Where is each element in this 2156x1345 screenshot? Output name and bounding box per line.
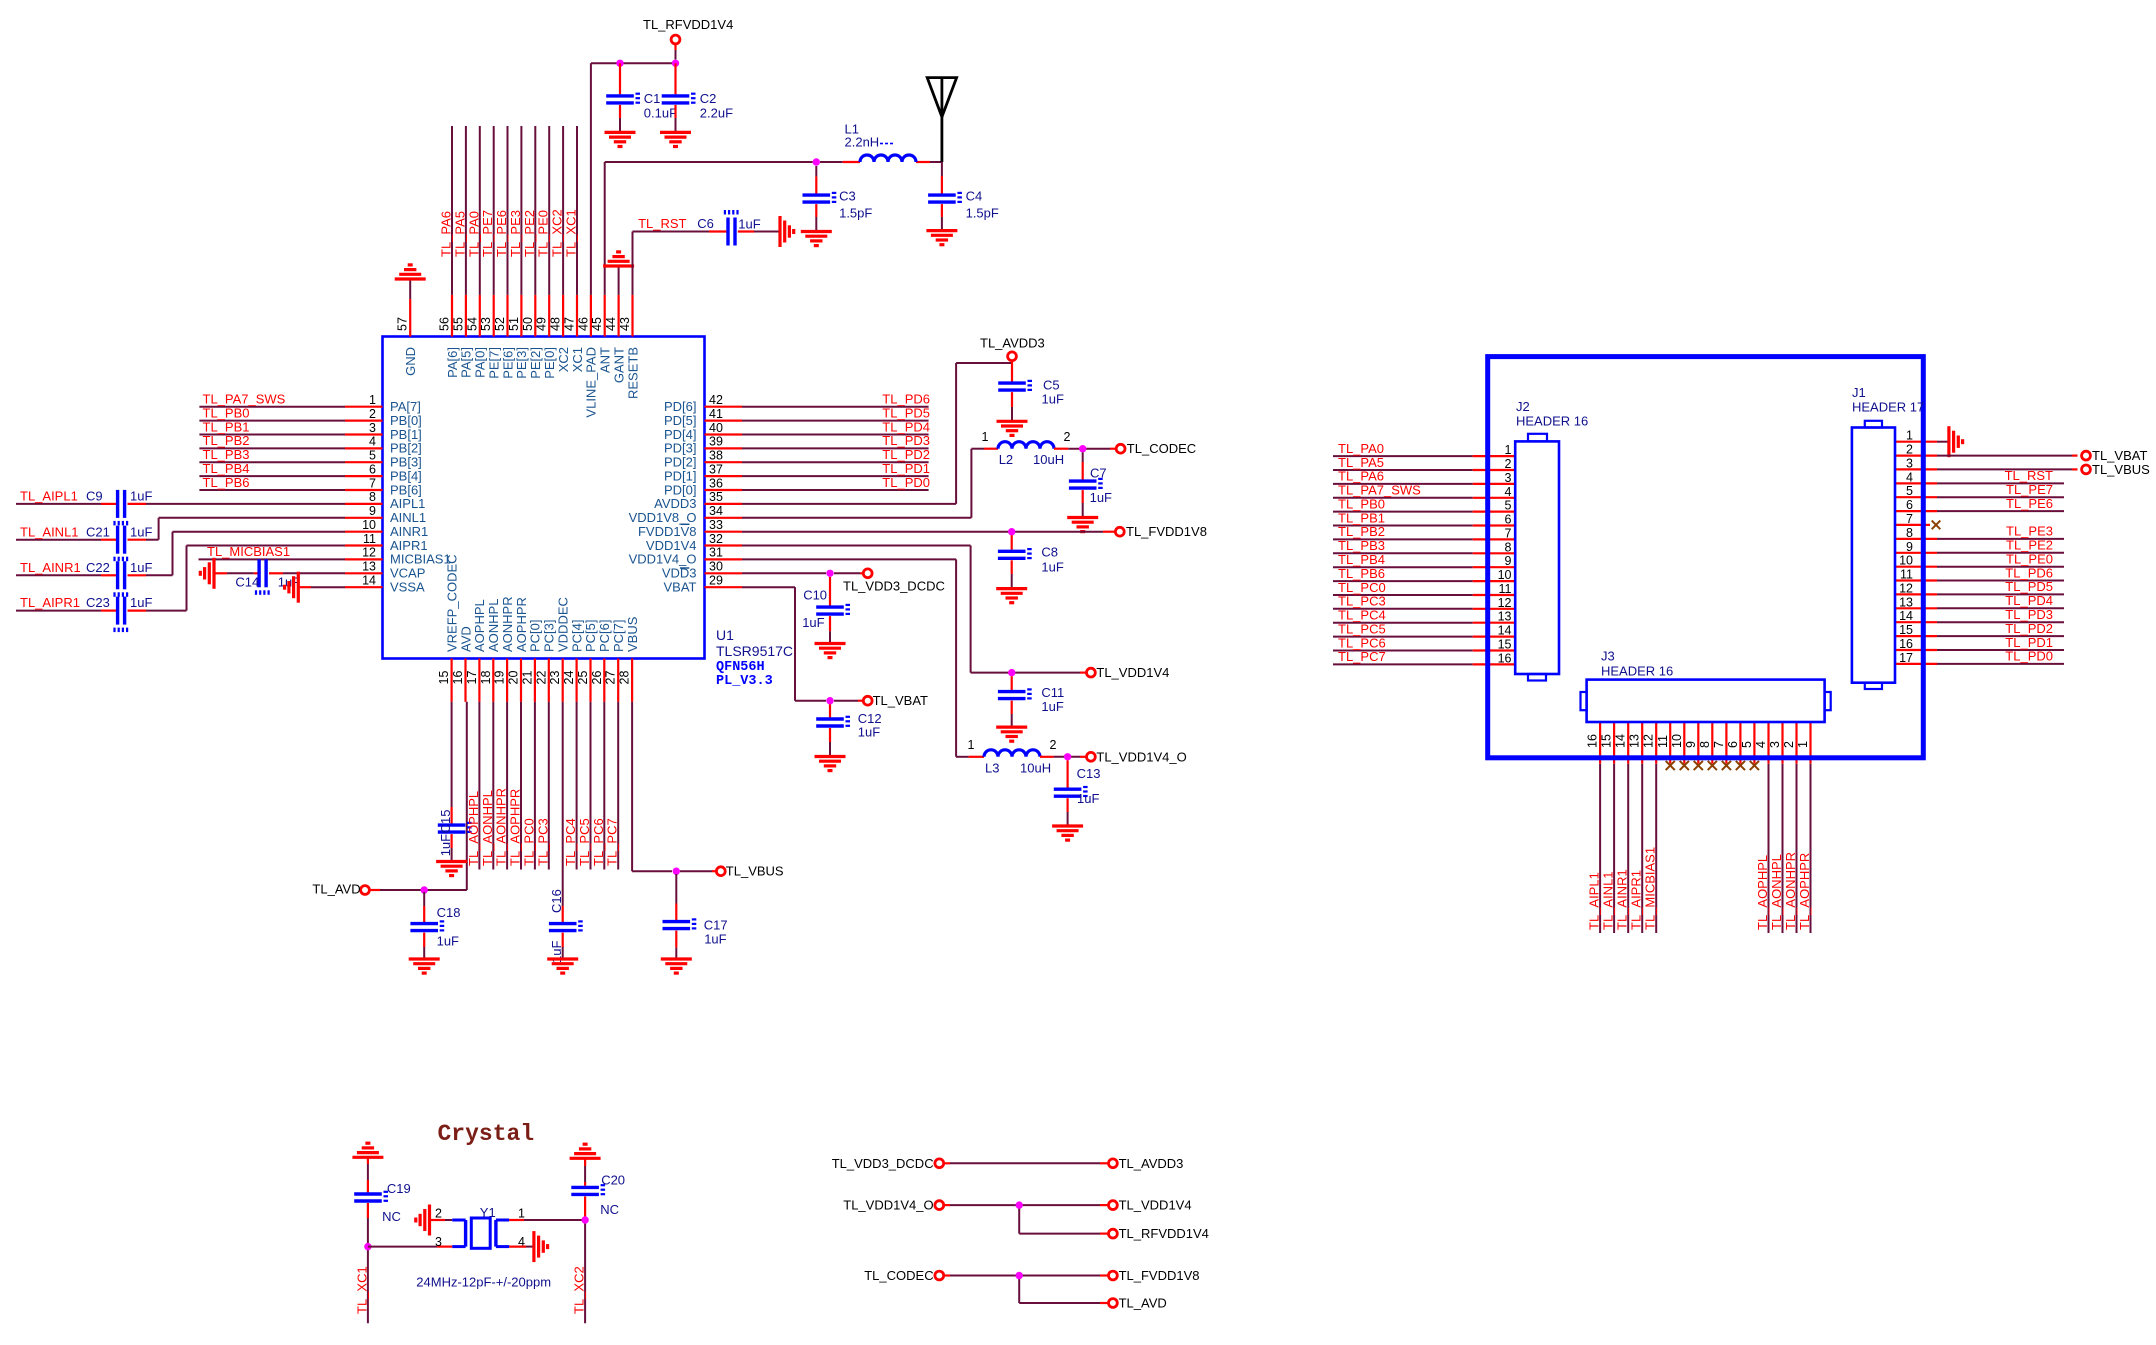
U1 top pin stubs 43-57: [410, 295, 632, 337]
U1 bottom pin names: [444, 554, 640, 652]
svg-text:TL_PA5: TL_PA5: [1338, 455, 1384, 470]
wire TL_PB3 to J2 pin 8: [1333, 538, 1515, 553]
no-connect J3 pins 5-11: [1666, 722, 1759, 770]
wire TL_PB0 to U1 pin 2: [199, 405, 345, 420]
wire TL_PE0 from J1 pin 10: [1895, 552, 2064, 567]
ground at C13: [1052, 826, 1083, 840]
wire TL_PC3 from U1 pin 22: [535, 702, 550, 870]
svg-text:37: 37: [709, 462, 723, 476]
wire TL_PD5 from J1 pin 12: [1895, 579, 2064, 594]
svg-text:TL_PB1: TL_PB1: [203, 419, 250, 434]
svg-text:J1: J1: [1852, 385, 1866, 400]
capacitor C12 1uF: [816, 704, 881, 756]
wire TL_PC6 to J2 pin 15: [1333, 635, 1515, 650]
wire TL_PC5 to J2 pin 14: [1333, 621, 1515, 636]
svg-text:39: 39: [709, 435, 723, 449]
svg-text:TL_PB4: TL_PB4: [203, 461, 250, 476]
wire TL_AOPHPL from U1 pin 17: [466, 702, 481, 870]
wire TL_AOPHPR from J3 pin 1: [1797, 722, 1812, 933]
svg-text:3: 3: [435, 1235, 442, 1249]
wire TL_PD0 from J1 pin 17: [1895, 649, 2064, 664]
svg-text:38: 38: [709, 449, 723, 463]
svg-text:QFN56H: QFN56H: [716, 660, 765, 675]
svg-text:1uF: 1uF: [1041, 699, 1063, 714]
svg-text:3: 3: [1505, 471, 1512, 485]
junction at C12: [826, 697, 833, 704]
wire TL_PB4 to U1 pin 6: [199, 461, 345, 476]
svg-text:13: 13: [1628, 734, 1642, 748]
svg-text:PD[0]: PD[0]: [664, 482, 697, 497]
svg-text:PB[3]: PB[3]: [390, 455, 422, 470]
power port TL_VBUS: [716, 864, 784, 879]
svg-text:TL_AONHPR: TL_AONHPR: [1783, 852, 1798, 930]
svg-text:C20: C20: [601, 1173, 625, 1188]
svg-text:0.1uF: 0.1uF: [644, 105, 677, 120]
IC U1 TLSR9517C body: [383, 337, 705, 659]
U1 left pin numbers 1-14: [362, 393, 376, 588]
svg-text:4: 4: [1754, 741, 1768, 748]
svg-text:TL_AVDD3: TL_AVDD3: [1119, 1156, 1184, 1171]
svg-text:54: 54: [465, 317, 479, 331]
svg-text:TL_VDD3_DCDC: TL_VDD3_DCDC: [843, 579, 945, 594]
svg-text:49: 49: [535, 317, 549, 331]
svg-text:8: 8: [1698, 741, 1712, 748]
svg-text:2.2nH: 2.2nH: [845, 134, 880, 149]
svg-text:14: 14: [1498, 624, 1512, 638]
wire TL_AOPHPR from U1 pin 20: [508, 702, 523, 870]
svg-text:TL_PA7_SWS: TL_PA7_SWS: [203, 392, 286, 407]
svg-text:PC[4]: PC[4]: [569, 619, 584, 652]
svg-text:1: 1: [1796, 741, 1810, 748]
port TL_VBUS right: [2082, 462, 2151, 477]
svg-text:TL_AOPHPR: TL_AOPHPR: [1797, 853, 1812, 930]
svg-text:TL_PE2: TL_PE2: [2006, 538, 2053, 553]
svg-text:TL_AIPL1: TL_AIPL1: [1587, 872, 1602, 930]
svg-text:4: 4: [1505, 485, 1512, 499]
svg-text:TL_PD4: TL_PD4: [882, 419, 930, 434]
ground at C14 left: [200, 558, 214, 589]
svg-text:PE[7]: PE[7]: [487, 347, 502, 379]
svg-text:AONHPR: AONHPR: [500, 596, 515, 652]
port TL_VDD1V4_O: [843, 1198, 943, 1213]
capacitor C22 with net TL_AINR1 to U1 pin 10: [16, 532, 345, 597]
svg-text:12: 12: [1498, 596, 1512, 610]
svg-text:PD[5]: PD[5]: [664, 413, 697, 428]
inductor L2 10uH: [982, 430, 1071, 467]
svg-text:TL_AONHPR: TL_AONHPR: [494, 788, 509, 866]
wire TL_PC4 from U1 pin 24: [563, 702, 578, 870]
svg-text:TL_FVDD1V8: TL_FVDD1V8: [1119, 1268, 1200, 1283]
svg-text:4: 4: [369, 435, 376, 449]
svg-text:TL_AINR1: TL_AINR1: [20, 560, 81, 575]
svg-text:50: 50: [521, 317, 535, 331]
svg-text:TL_PC4: TL_PC4: [563, 818, 578, 866]
svg-text:PA[0]: PA[0]: [473, 347, 488, 378]
svg-text:PA[5]: PA[5]: [459, 347, 474, 378]
svg-text:3: 3: [1906, 457, 1913, 471]
wire TL_PC7 from U1 pin 27: [605, 702, 620, 870]
svg-text:J2: J2: [1516, 399, 1530, 414]
svg-text:TLSR9517C: TLSR9517C: [716, 643, 793, 659]
ground at C6: [780, 216, 794, 247]
svg-text:TL_VBAT: TL_VBAT: [2092, 448, 2147, 463]
wire TL_PD5 from U1 pin 41: [742, 405, 930, 420]
svg-text:PB[0]: PB[0]: [390, 413, 422, 428]
ground at C12: [815, 757, 846, 771]
capacitor C1 0.1uF: [606, 63, 677, 132]
svg-text:PD[6]: PD[6]: [664, 399, 697, 414]
U1 right pin names: [629, 399, 697, 595]
wire TL_AONHPL from U1 pin 18: [480, 702, 495, 870]
svg-text:9: 9: [369, 504, 376, 518]
wire TL_PE3 from J1 pin 8: [1895, 524, 2064, 539]
wire TL_PA5 to J2 pin 2: [1333, 455, 1515, 470]
svg-text:24MHz-12pF-+/-20ppm: 24MHz-12pF-+/-20ppm: [416, 1275, 551, 1290]
svg-text:52: 52: [493, 317, 507, 331]
svg-text:TL_RFVDD1V4: TL_RFVDD1V4: [1119, 1226, 1209, 1241]
svg-text:14: 14: [1614, 734, 1628, 748]
wire TL_MICBIAS1 to U1 pin 12: [199, 544, 346, 559]
svg-text:22: 22: [534, 671, 548, 685]
svg-text:PD[3]: PD[3]: [664, 441, 697, 456]
crystal Y1: [435, 1205, 525, 1249]
svg-text:10: 10: [1670, 734, 1684, 748]
svg-text:TL_AOPHPR: TL_AOPHPR: [508, 789, 523, 866]
wire TL_PB2 to U1 pin 4: [199, 433, 345, 448]
ground at C2: [660, 132, 691, 146]
svg-text:TL_VDD1V4: TL_VDD1V4: [1119, 1198, 1192, 1213]
svg-text:PC[7]: PC[7]: [611, 619, 626, 652]
ground at crystal pin 4: [509, 1231, 547, 1262]
svg-text:13: 13: [362, 560, 376, 574]
capacitor C18 1uF: [410, 892, 460, 959]
svg-text:1uF: 1uF: [1041, 560, 1063, 575]
svg-text:TL_PD2: TL_PD2: [2005, 621, 2053, 636]
svg-text:TL_PD3: TL_PD3: [2005, 607, 2053, 622]
wire TL_MICBIAS1 from J3 pin 12: [1643, 722, 1658, 933]
svg-text:2: 2: [369, 407, 376, 421]
junction at C10: [826, 570, 833, 577]
ground at crystal pin 2: [416, 1205, 453, 1236]
svg-text:TL_XC2: TL_XC2: [572, 1266, 587, 1314]
svg-text:5: 5: [1740, 741, 1754, 748]
svg-text:C8: C8: [1041, 545, 1058, 560]
svg-text:PA[7]: PA[7]: [390, 399, 421, 414]
svg-text:2: 2: [435, 1207, 442, 1221]
svg-text:VBAT: VBAT: [664, 580, 697, 595]
svg-text:1: 1: [1906, 429, 1913, 443]
wire TL_PE6 to U1 pin 52: [494, 126, 509, 295]
svg-text:8: 8: [1505, 540, 1512, 554]
svg-text:1uF: 1uF: [738, 217, 760, 232]
wire TL_AONHPR from U1 pin 19: [494, 702, 509, 870]
wire TL_AOPHPL from J3 pin 4: [1755, 722, 1770, 933]
connector J2 HEADER 16: [1515, 399, 1588, 681]
svg-text:TL_PE6: TL_PE6: [494, 210, 509, 257]
wire VDD1V4_O U1 pin 31 to L3: [742, 559, 984, 756]
svg-text:TL_PA6: TL_PA6: [1338, 469, 1384, 484]
svg-text:TL_PE3: TL_PE3: [508, 210, 523, 257]
svg-text:26: 26: [590, 671, 604, 685]
svg-text:TL_PC5: TL_PC5: [577, 818, 592, 866]
svg-text:AOPHPR: AOPHPR: [514, 597, 529, 652]
svg-text:TL_PB2: TL_PB2: [203, 433, 250, 448]
wire TL_PA0 to U1 pin 54: [466, 126, 481, 295]
wire TL_RST from J1 pin 4: [1895, 468, 2064, 483]
svg-text:7: 7: [369, 476, 376, 490]
capacitor C19 NC: [354, 1181, 411, 1224]
capacitor C13 1uF: [1054, 760, 1101, 826]
svg-text:TL_AVDD3: TL_AVDD3: [980, 336, 1045, 351]
wire TL_PE2 to U1 pin 50: [522, 126, 537, 295]
svg-text:TL_RST: TL_RST: [638, 216, 686, 231]
svg-text:1.5pF: 1.5pF: [966, 206, 999, 221]
ground at C5: [997, 421, 1028, 435]
svg-text:10uH: 10uH: [1033, 452, 1064, 467]
svg-text:TL_PE7: TL_PE7: [480, 210, 495, 257]
svg-text:9: 9: [1684, 741, 1698, 748]
svg-text:TL_PC0: TL_PC0: [1338, 580, 1386, 595]
port TL_AVDD3 right: [1109, 1156, 1184, 1171]
svg-text:AIPR1: AIPR1: [390, 538, 428, 553]
svg-text:TL_VDD1V4: TL_VDD1V4: [1096, 665, 1169, 680]
wire TL_XC1 to U1 pin 47: [564, 126, 579, 295]
svg-text:NC: NC: [382, 1209, 401, 1224]
wire VDD1V4 U1 pin 32 to TL_VDD1V4: [742, 546, 1087, 673]
svg-text:TL_PE7: TL_PE7: [2006, 482, 2053, 497]
svg-text:TL_AINL1: TL_AINL1: [1601, 871, 1616, 930]
svg-text:C9: C9: [86, 489, 103, 504]
ground at C11: [996, 727, 1027, 741]
svg-text:TL_PA5: TL_PA5: [452, 211, 467, 257]
svg-text:12: 12: [362, 546, 376, 560]
connector J3 HEADER 16: [1581, 649, 1831, 722]
svg-text:4: 4: [1906, 470, 1913, 484]
svg-text:TL_RFVDD1V4: TL_RFVDD1V4: [643, 17, 733, 32]
svg-text:51: 51: [507, 317, 521, 331]
wire L2 to TL_CODEC: [1068, 448, 1116, 450]
svg-text:PB[2]: PB[2]: [390, 441, 422, 456]
svg-text:AINR1: AINR1: [390, 524, 428, 539]
svg-text:2: 2: [1050, 738, 1057, 752]
board outline box: [1488, 357, 1924, 758]
svg-text:1uF: 1uF: [438, 834, 453, 856]
svg-text:TL_PD4: TL_PD4: [2005, 593, 2053, 608]
svg-text:AONHPL: AONHPL: [486, 599, 501, 652]
J3 pin numbers: [1586, 734, 1810, 748]
svg-text:VLINE_PAD: VLINE_PAD: [584, 347, 599, 418]
ground at VSSA U1 pin 14: [285, 572, 345, 603]
svg-text:1uF: 1uF: [1090, 490, 1112, 505]
svg-text:3: 3: [1768, 741, 1782, 748]
capacitor C4 1.5pF: [928, 162, 999, 231]
svg-text:14: 14: [362, 574, 376, 588]
wire TL_PD2 from J1 pin 15: [1895, 621, 2064, 636]
svg-text:11: 11: [1900, 568, 1913, 582]
svg-text:VDDDEC: VDDDEC: [556, 597, 571, 652]
svg-text:HEADER 16: HEADER 16: [1601, 663, 1673, 678]
svg-text:47: 47: [563, 317, 577, 331]
capacitor C21 with net TL_AINL1 to U1 pin 9: [16, 518, 345, 561]
svg-text:2: 2: [1505, 457, 1512, 471]
wire TL_PE0 to U1 pin 49: [536, 126, 551, 295]
svg-text:28: 28: [618, 671, 632, 685]
svg-text:L2: L2: [999, 452, 1013, 467]
J1 pin numbers: [1899, 429, 1913, 665]
svg-text:PD[4]: PD[4]: [664, 427, 697, 442]
wire TL_PD2 from U1 pin 38: [742, 447, 930, 462]
svg-text:HEADER 17: HEADER 17: [1852, 400, 1924, 415]
junction at crystal pin 3 node: [364, 1243, 371, 1250]
capacitor C9 with net TL_AIPL1 to U1 pin 8: [16, 489, 345, 526]
svg-text:15: 15: [1899, 623, 1913, 637]
svg-text:21: 21: [520, 671, 534, 685]
svg-text:30: 30: [709, 560, 723, 574]
inductor L1 2.2nH: [845, 121, 917, 162]
svg-text:TL_AONHPL: TL_AONHPL: [1769, 854, 1784, 930]
svg-text:42: 42: [709, 393, 723, 407]
port TL_VBAT right: [2082, 448, 2148, 463]
svg-text:12: 12: [1642, 734, 1656, 748]
svg-text:C6: C6: [697, 216, 714, 231]
svg-text:PE[0]: PE[0]: [542, 347, 557, 379]
svg-text:TL_PE3: TL_PE3: [2006, 524, 2053, 539]
svg-text:TL_AOPHPL: TL_AOPHPL: [1755, 855, 1770, 930]
svg-text:TL_VDD1V4_O: TL_VDD1V4_O: [843, 1198, 933, 1213]
svg-text:AIPL1: AIPL1: [390, 496, 425, 511]
wire TL_PC6 from U1 pin 26: [591, 702, 606, 870]
capacitor C16 1uF on U1 pin 23 VDDDEC: [549, 702, 583, 963]
svg-text:C14: C14: [235, 575, 259, 590]
junction at C18: [421, 886, 428, 893]
wire TL_VBUS from J1 pin 3: [1895, 468, 2078, 470]
svg-text:8: 8: [1906, 526, 1913, 540]
svg-text:TL_PD0: TL_PD0: [882, 475, 930, 490]
svg-text:1uF: 1uF: [130, 595, 152, 610]
wire TL_AINL1 from J3 pin 15: [1601, 722, 1616, 933]
svg-text:VCAP: VCAP: [390, 566, 425, 581]
svg-text:TL_PC7: TL_PC7: [1338, 649, 1386, 664]
capacitor C23 with net TL_AIPR1 to U1 pin 11: [16, 546, 345, 633]
svg-text:TL_PC3: TL_PC3: [1338, 594, 1386, 609]
capacitor C2 2.2uF: [662, 63, 733, 132]
svg-text:VDD3: VDD3: [662, 566, 697, 581]
svg-text:1uF: 1uF: [130, 524, 152, 539]
svg-text:PE[2]: PE[2]: [528, 347, 543, 379]
svg-text:16: 16: [1899, 637, 1913, 651]
svg-text:VDD1V4: VDD1V4: [646, 538, 697, 553]
svg-text:5: 5: [369, 449, 376, 463]
svg-text:PE[6]: PE[6]: [500, 347, 515, 379]
svg-text:23: 23: [548, 671, 562, 685]
svg-text:C5: C5: [1043, 378, 1060, 393]
U1 bottom pin stubs 15-28: [452, 659, 632, 702]
svg-text:Crystal: Crystal: [438, 1121, 535, 1147]
svg-text:10uH: 10uH: [1020, 760, 1051, 775]
wire TL_PD1 from J1 pin 16: [1895, 635, 2064, 650]
port TL_RFVDD1V4 right: [1109, 1226, 1209, 1241]
junction at C7: [1079, 445, 1086, 452]
svg-text:17: 17: [465, 671, 479, 685]
svg-text:5: 5: [1906, 484, 1913, 498]
wire TL_PD6 from U1 pin 42: [742, 392, 930, 407]
power port TL_VDD3_DCDC: [843, 569, 945, 594]
svg-text:HEADER 16: HEADER 16: [1516, 414, 1588, 429]
U1 right pin stubs 29-42: [705, 407, 743, 588]
J2 pin numbers: [1498, 443, 1512, 665]
svg-text:36: 36: [709, 476, 723, 490]
svg-text:2.2uF: 2.2uF: [700, 105, 733, 120]
svg-text:VDD1V8_O: VDD1V8_O: [629, 510, 697, 525]
svg-text:TL_PB2: TL_PB2: [1338, 524, 1385, 539]
wire TL_PB2 to J2 pin 7: [1333, 524, 1515, 539]
ground at U1 pin 44 GANT: [603, 252, 634, 295]
wire TL_AINR1 from J3 pin 14: [1615, 722, 1630, 933]
svg-text:C22: C22: [86, 560, 110, 575]
ground at C3: [801, 232, 832, 246]
wire TL_PB1 to J2 pin 6: [1333, 510, 1515, 525]
wire TL_PB0 to J2 pin 5: [1333, 496, 1515, 511]
wire TL_PC0 to J2 pin 11: [1333, 580, 1515, 595]
svg-text:TL_PE0: TL_PE0: [536, 210, 551, 257]
wire TL_PD6 from J1 pin 11: [1895, 565, 2064, 580]
svg-text:TL_AINL1: TL_AINL1: [20, 524, 79, 539]
svg-text:53: 53: [479, 317, 493, 331]
svg-text:TL_AONHPL: TL_AONHPL: [480, 790, 495, 866]
svg-text:35: 35: [709, 490, 723, 504]
svg-text:1.5pF: 1.5pF: [839, 206, 872, 221]
ground at C15: [436, 862, 467, 876]
wire TL_PA5 to U1 pin 55: [452, 126, 467, 295]
wire ANT U1 pin 45 to antenna: [605, 162, 942, 295]
wire VBAT U1 pin 29 to TL_VBAT: [742, 587, 863, 701]
svg-text:43: 43: [618, 317, 632, 331]
svg-text:15: 15: [1600, 734, 1614, 748]
wire TL_PE3 to U1 pin 51: [508, 126, 523, 295]
svg-text:17: 17: [1899, 651, 1913, 665]
svg-text:TL_PD2: TL_PD2: [882, 447, 930, 462]
antenna: [927, 78, 956, 162]
svg-text:TL_MICBIAS1: TL_MICBIAS1: [207, 544, 290, 559]
svg-text:PB[4]: PB[4]: [390, 468, 422, 483]
svg-text:C15: C15: [438, 810, 453, 834]
wire TL_PA7_SWS to J2 pin 4: [1333, 483, 1515, 498]
svg-text:1uF: 1uF: [1077, 791, 1099, 806]
wire to crystal Y1 pin 3: [368, 1246, 452, 1248]
svg-text:TL_VBUS: TL_VBUS: [2092, 462, 2150, 477]
svg-text:U1: U1: [716, 627, 734, 643]
wire TL_PA0 to J2 pin 1: [1333, 441, 1515, 456]
svg-text:TL_VDD1V4_O: TL_VDD1V4_O: [1096, 749, 1186, 764]
svg-text:FVDD1V8: FVDD1V8: [638, 524, 697, 539]
svg-text:C7: C7: [1090, 466, 1107, 481]
svg-text:TL_PE0: TL_PE0: [2006, 552, 2053, 567]
wire VLINE_PAD U1 pin 46 to TL_RFVDD1V4 node: [591, 63, 676, 295]
svg-text:C4: C4: [966, 189, 983, 204]
capacitor C17 1uF: [663, 874, 728, 959]
svg-text:1uF: 1uF: [130, 560, 152, 575]
svg-text:16: 16: [451, 671, 465, 685]
junction at C8: [1008, 528, 1015, 535]
svg-text:1: 1: [982, 430, 989, 444]
svg-text:1: 1: [369, 393, 376, 407]
svg-text:TL_XC1: TL_XC1: [564, 209, 579, 257]
svg-text:TL_AIPR1: TL_AIPR1: [20, 595, 80, 610]
svg-text:RESETB: RESETB: [625, 347, 640, 399]
svg-text:TL_PC4: TL_PC4: [1338, 608, 1386, 623]
power port TL_RFVDD1V4: [643, 17, 733, 60]
svg-text:7: 7: [1505, 526, 1512, 540]
